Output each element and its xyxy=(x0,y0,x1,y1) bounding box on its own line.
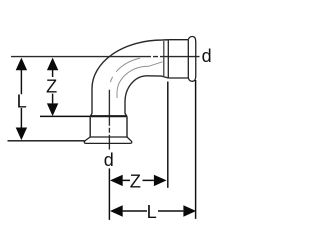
extension line (right bead end face, for L bottom) xyxy=(195,80,197,219)
bottom press socket walls xyxy=(90,116,127,137)
svg-text:L: L xyxy=(17,91,27,112)
dimension L (left, vertical) xyxy=(20,70,22,128)
node axis-vertical (centerline of bottom press end, d) xyxy=(108,90,110,150)
right press socket left edge xyxy=(167,40,169,78)
bottom press socket bead/flare xyxy=(90,136,127,138)
svg-text:L: L xyxy=(147,201,157,222)
wire inner bend outline xyxy=(125,76,168,116)
right press socket body xyxy=(168,40,188,78)
dimension Z (bottom, horizontal) xyxy=(123,179,154,181)
bottom press socket stop shoulder (thick) xyxy=(90,115,127,117)
dimension L (bottom, horizontal) xyxy=(123,210,184,212)
node axis-horizontal (centerline of right press end, d) xyxy=(11,56,200,58)
extension line for Z (socket shoulder level, left) xyxy=(40,115,90,117)
extension line for L (bottom face level, left) xyxy=(8,140,85,142)
svg-text:d: d xyxy=(202,46,212,66)
svg-text:d: d xyxy=(104,150,114,170)
wire bend surface highlight line xyxy=(117,62,163,98)
right press socket U-right: pipe stop line xyxy=(163,41,165,76)
node axis-bend (curved chain line of bend axis) xyxy=(109,58,140,89)
extension line below bottom port centerline xyxy=(108,168,110,220)
right press socket bead xyxy=(188,36,195,81)
wire outer bend outline xyxy=(90,40,168,116)
svg-text:Z: Z xyxy=(130,171,141,192)
svg-text:Z: Z xyxy=(46,75,57,96)
dimension Z (left, vertical) xyxy=(52,70,54,103)
extension line (right socket edge, for Z bottom) xyxy=(167,82,169,188)
